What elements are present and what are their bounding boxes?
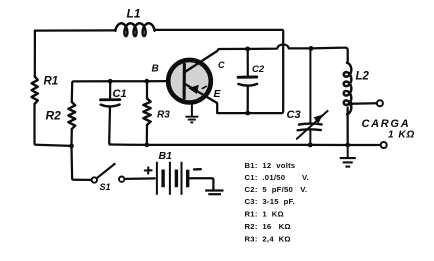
junction node B xyxy=(144,79,149,84)
wire left rail xyxy=(34,31,36,77)
junction node L2 bottom xyxy=(345,143,350,148)
junction node R3 bottom xyxy=(144,143,149,148)
svg-text:L2: L2 xyxy=(356,71,370,83)
terminal upper xyxy=(377,100,383,106)
svg-text:R1: R1 xyxy=(44,76,59,88)
wire left rail lower xyxy=(35,104,72,146)
svg-text:R2: 16 KΩ: R2: 16 KΩ xyxy=(245,222,291,231)
svg-text:R2: R2 xyxy=(46,109,62,123)
resistor R2 xyxy=(68,102,75,129)
svg-text:C3: 3-15 pF.: C3: 3-15 pF. xyxy=(245,197,296,206)
transistor Q1 xyxy=(168,51,217,103)
wire collector to top-right net xyxy=(217,44,347,62)
ground battery xyxy=(205,191,223,195)
battery B1 xyxy=(157,162,188,195)
resistor R1 xyxy=(32,77,38,104)
resistor R3 xyxy=(143,81,150,145)
junction node C2 bottom xyxy=(245,111,250,116)
junction node C3 top xyxy=(309,46,314,51)
svg-text:C2: C2 xyxy=(252,64,265,75)
junction node C2 top xyxy=(245,47,250,52)
wire top rail right xyxy=(155,30,284,113)
svg-text:1 KΩ: 1 KΩ xyxy=(388,130,415,141)
ground transistor xyxy=(185,104,198,123)
svg-text:E: E xyxy=(214,88,222,100)
svg-text:CARGA: CARGA xyxy=(362,118,411,130)
capacitor C3 (variable) xyxy=(297,48,328,144)
junction node C3 bottom xyxy=(308,143,313,148)
wire emitter corner xyxy=(216,103,219,113)
wire bottom rail xyxy=(110,143,381,146)
svg-text:C2: 5 pF/50 V.: C2: 5 pF/50 V. xyxy=(245,185,308,194)
wire top rail left xyxy=(35,29,116,31)
wire R2 branch xyxy=(70,129,73,146)
svg-text:C1: .01/50 V.: C1: .01/50 V. xyxy=(245,173,310,182)
svg-text:S1: S1 xyxy=(100,182,111,192)
junction node R1R2 xyxy=(69,144,74,149)
wire L2 bottom xyxy=(346,108,348,146)
inductor L2 xyxy=(344,63,352,115)
svg-text:C: C xyxy=(218,60,225,70)
svg-text:B1: B1 xyxy=(159,150,173,162)
switch S1 xyxy=(72,146,155,183)
battery plus sign xyxy=(145,167,152,173)
wire battery to ground xyxy=(189,178,213,190)
battery minus sign xyxy=(194,168,201,171)
ground L2 xyxy=(340,145,356,167)
wire L2 tap to terminal xyxy=(351,102,377,105)
capacitor C1 xyxy=(101,81,120,144)
junction node L2 tap xyxy=(348,101,353,106)
svg-text:R3: R3 xyxy=(157,110,170,121)
svg-text:R1: 1 KΩ: R1: 1 KΩ xyxy=(245,210,284,219)
wire R2 top to node B xyxy=(72,81,168,102)
svg-text:L1: L1 xyxy=(127,6,141,20)
svg-text:C3: C3 xyxy=(287,109,301,121)
inductor L1 xyxy=(115,23,154,36)
svg-text:B: B xyxy=(152,64,159,75)
junction node C1 top xyxy=(108,79,113,84)
capacitor C2 xyxy=(238,49,257,113)
svg-text:R3: 2,4 KΩ: R3: 2,4 KΩ xyxy=(245,234,291,243)
terminal lower xyxy=(381,142,387,148)
svg-text:B1: 12 volts: B1: 12 volts xyxy=(245,161,296,170)
svg-text:C1: C1 xyxy=(113,88,127,100)
